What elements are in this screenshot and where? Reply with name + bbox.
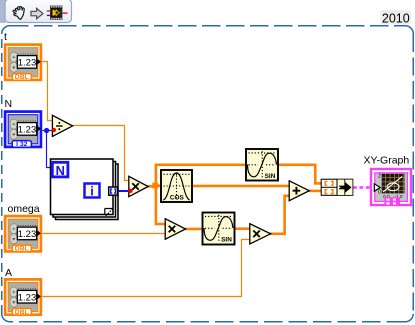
cos function node	[161, 170, 192, 202]
wire t	[41, 62, 54, 121]
coercion dot x1	[128, 189, 132, 193]
svg-text:SIN: SIN	[265, 173, 276, 180]
svg-text:1.23: 1.23	[18, 229, 37, 240]
svg-text:COS: COS	[170, 195, 185, 202]
hand tool icon	[13, 7, 24, 20]
svg-text:A: A	[5, 267, 12, 279]
junction dot	[152, 183, 158, 189]
wire junction to cos	[155, 184, 162, 187]
wire sin2 to x3	[234, 227, 251, 230]
page curl on loop	[105, 209, 113, 215]
svg-text:SIN: SIN	[221, 237, 232, 244]
svg-text:XY-Graph: XY-Graph	[364, 155, 410, 167]
wire sin1 out to bundle	[278, 165, 322, 184]
svg-text:I 32: I 32	[16, 141, 28, 148]
coercion dot divide	[52, 128, 56, 132]
wire junction up to sin1	[156, 165, 247, 185]
wire omega	[41, 233, 166, 235]
wire N to divide	[41, 130, 54, 132]
loop iteration terminal i	[85, 184, 100, 199]
svg-text:1.23: 1.23	[18, 125, 37, 136]
control omega	[4, 215, 43, 254]
wire A	[41, 240, 251, 297]
multiply node x2	[165, 219, 185, 240]
svg-text:omega: omega	[8, 203, 40, 215]
svg-text:DBL: DBL	[15, 309, 29, 316]
svg-text:DBL: DBL	[15, 246, 29, 253]
wire add out to bundle	[309, 190, 322, 193]
window corner strip	[0, 0, 6, 23]
arrow tool icon	[31, 8, 43, 18]
wire cos out to add	[192, 185, 290, 188]
svg-text:0: 0	[378, 190, 381, 196]
svg-text:N: N	[5, 98, 13, 110]
wire cluster to graph (pink dashed)	[353, 186, 374, 188]
svg-text:i: i	[90, 184, 94, 199]
toolbar box	[5, 0, 72, 22]
wire i to tunnel	[100, 190, 110, 192]
wire x1 out	[148, 185, 154, 188]
wire divide out	[72, 126, 129, 181]
loop count terminal N	[52, 162, 68, 178]
control t	[4, 43, 43, 82]
control N (I32)	[4, 110, 43, 149]
wire x3 out to add	[270, 196, 289, 234]
wire junction down to x2	[156, 185, 166, 224]
2010 year tag	[381, 10, 412, 25]
svg-text:2010: 2010	[382, 11, 410, 25]
for loop stacked frames	[51, 159, 119, 220]
svg-text:1.23: 1.23	[18, 292, 37, 303]
add node	[289, 181, 309, 201]
sin function node (bottom)	[203, 213, 235, 245]
multiply node x3	[250, 224, 271, 244]
divide node	[52, 115, 72, 136]
VI filmstrip icon	[47, 6, 68, 20]
control A	[4, 278, 43, 317]
sin function node (top)	[246, 149, 278, 181]
svg-text:DBL: DBL	[15, 74, 29, 81]
svg-text:t: t	[4, 31, 7, 43]
blue junction dot	[44, 128, 49, 133]
wire x2 to sin2	[185, 228, 203, 231]
loop tunnel	[109, 187, 118, 195]
svg-text:2: 2	[378, 174, 381, 180]
wire tunnel out array	[117, 190, 130, 192]
svg-text:1.23: 1.23	[18, 58, 37, 69]
multiply node x1	[129, 176, 148, 196]
svg-text:N: N	[56, 163, 65, 178]
wire N branch to loop count	[47, 131, 54, 168]
bundle node	[321, 179, 353, 195]
XY-Graph terminal	[371, 169, 411, 205]
